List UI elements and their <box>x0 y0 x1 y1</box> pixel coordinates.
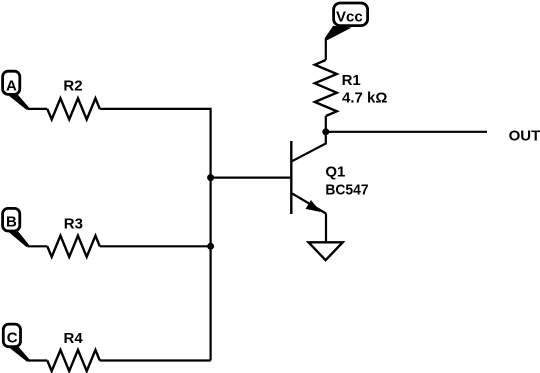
wire bus vertical <box>210 108 212 361</box>
svg-text:4.7 kΩ: 4.7 kΩ <box>342 90 387 107</box>
ground <box>309 242 343 260</box>
resistor R2 <box>47 98 100 119</box>
wire base <box>211 177 292 179</box>
resistor R4 <box>47 350 100 371</box>
transistor Q1 <box>291 132 326 214</box>
svg-text:OUT: OUT <box>509 128 540 145</box>
svg-text:BC547: BC547 <box>325 182 368 199</box>
svg-text:R3: R3 <box>64 216 83 233</box>
input label C <box>3 324 29 362</box>
svg-text:Vcc: Vcc <box>336 8 363 25</box>
node B junction <box>207 243 214 250</box>
input label A <box>3 71 29 110</box>
wire R1 to collector node <box>325 116 327 132</box>
wire B to R3 <box>28 245 48 247</box>
svg-text:B: B <box>6 214 17 231</box>
wire Vcc to R1 <box>325 39 327 61</box>
svg-text:Q1: Q1 <box>325 164 345 181</box>
svg-text:R2: R2 <box>63 78 82 95</box>
svg-text:R4: R4 <box>64 330 84 347</box>
svg-text:A: A <box>6 77 17 94</box>
power label Vcc <box>325 3 368 40</box>
wire R4 to bus <box>100 359 211 361</box>
svg-text:C: C <box>7 329 18 346</box>
wire collector node to OUT <box>326 131 487 133</box>
resistor R1 <box>315 60 337 116</box>
wire R3 to bus <box>100 245 211 247</box>
input label B <box>3 208 29 247</box>
resistor R3 <box>47 236 100 257</box>
node collector junction <box>322 128 329 135</box>
wire R2 to bus <box>100 108 211 110</box>
svg-text:R1: R1 <box>342 72 361 89</box>
wire A to R2 <box>28 108 48 110</box>
node base junction <box>207 174 214 181</box>
wire emitter to ground <box>325 214 327 243</box>
wire C to R4 <box>28 359 48 361</box>
